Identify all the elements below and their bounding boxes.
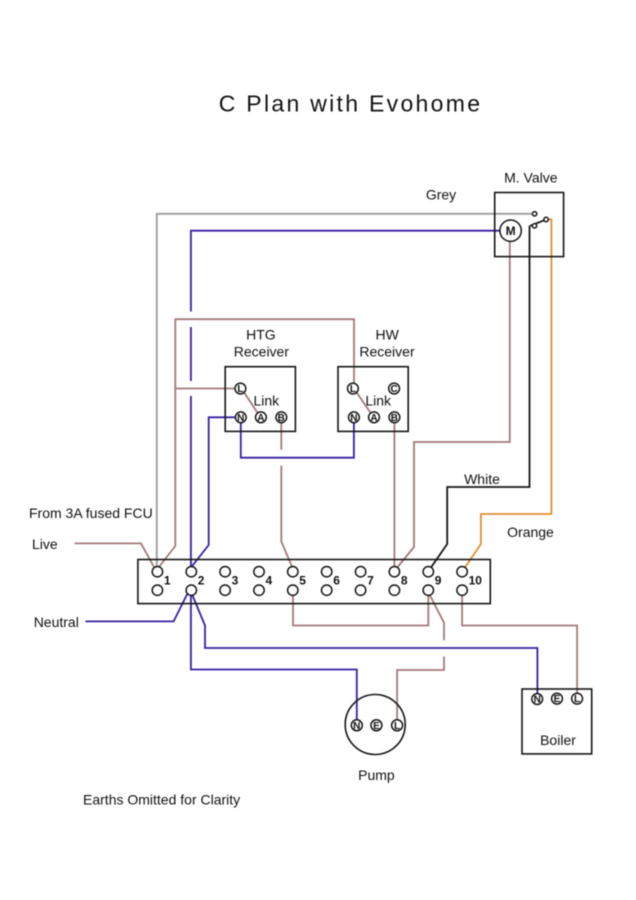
svg-text:3: 3 — [232, 574, 239, 588]
svg-text:L: L — [350, 384, 356, 395]
svg-text:Link: Link — [253, 393, 280, 409]
svg-text:White: White — [464, 471, 500, 487]
svg-text:N: N — [534, 695, 541, 706]
svg-text:6: 6 — [333, 574, 340, 588]
svg-text:5: 5 — [299, 574, 306, 588]
svg-text:Receiver: Receiver — [234, 343, 290, 359]
svg-text:9: 9 — [435, 574, 442, 588]
svg-text:B: B — [278, 413, 285, 424]
svg-text:From 3A fused FCU: From 3A fused FCU — [29, 505, 153, 521]
svg-text:N: N — [237, 413, 244, 424]
svg-text:M. Valve: M. Valve — [504, 170, 558, 186]
svg-text:4: 4 — [266, 574, 273, 588]
svg-text:Link: Link — [365, 393, 392, 409]
svg-text:C Plan with Evohome: C Plan with Evohome — [219, 90, 483, 116]
svg-text:10: 10 — [469, 574, 483, 588]
svg-text:N: N — [353, 721, 360, 732]
svg-text:A: A — [257, 413, 264, 424]
svg-text:2: 2 — [198, 574, 205, 588]
svg-text:Live: Live — [32, 536, 58, 552]
svg-text:L: L — [574, 694, 580, 705]
svg-text:Earths Omitted for Clarity: Earths Omitted for Clarity — [83, 792, 240, 808]
svg-text:Receiver: Receiver — [359, 343, 415, 359]
svg-text:HW: HW — [376, 327, 400, 343]
svg-text:Boiler: Boiler — [540, 732, 576, 748]
svg-text:L: L — [237, 384, 243, 395]
svg-text:A: A — [370, 413, 377, 424]
svg-text:1: 1 — [164, 574, 171, 588]
svg-text:Grey: Grey — [426, 186, 456, 202]
svg-text:B: B — [391, 413, 398, 424]
svg-text:M: M — [506, 224, 516, 238]
svg-text:N: N — [350, 413, 357, 424]
svg-text:Neutral: Neutral — [34, 614, 79, 630]
svg-text:E: E — [373, 721, 380, 732]
svg-text:C: C — [390, 384, 397, 395]
svg-text:Pump: Pump — [358, 767, 395, 783]
svg-text:L: L — [394, 721, 400, 732]
svg-text:7: 7 — [367, 574, 374, 588]
svg-text:HTG: HTG — [246, 327, 276, 343]
svg-text:Orange: Orange — [507, 524, 554, 540]
svg-text:8: 8 — [401, 574, 408, 588]
svg-text:E: E — [554, 694, 561, 705]
